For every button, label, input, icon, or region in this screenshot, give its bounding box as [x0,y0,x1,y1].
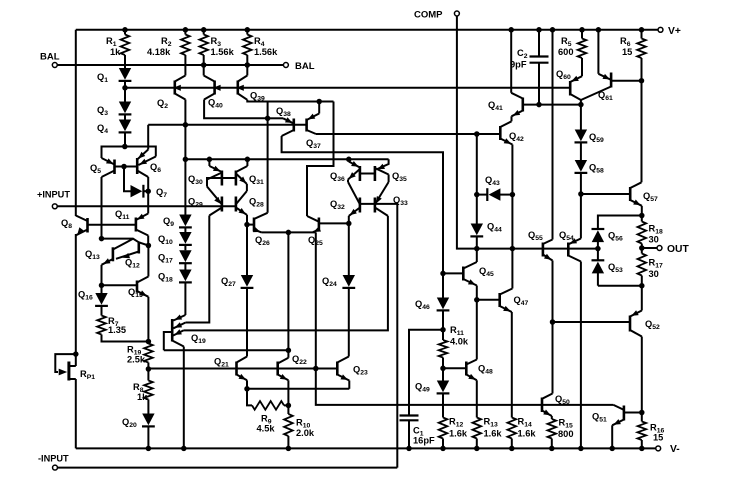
wire Q56 top link [598,216,642,230]
resistor R19 [127,344,153,370]
svg-text:Q59: Q59 [589,132,604,144]
svg-text:Q12: Q12 [125,258,140,270]
transistor Q16 (diode) [78,285,108,306]
svg-text:Q58: Q58 [589,163,604,175]
node Q51 rail [609,446,615,452]
wire Q13 emitter down [101,265,103,286]
wire Q5-Q6 base link [115,166,138,168]
wire output drive bus [316,369,614,405]
node R14 rail [509,446,515,452]
svg-text:Q7: Q7 [156,187,167,199]
wire Q37 collector east [316,133,500,135]
svg-text:Q18: Q18 [158,272,173,284]
wire Q39 collector to Q37 node [247,100,333,102]
transistor Q26 [247,213,270,247]
svg-text:15: 15 [653,433,663,443]
terminal V+ [658,26,681,37]
node Q19 col on rail [181,446,187,452]
wire Q38node col down to Q26 collector [267,118,269,213]
svg-text:Q30: Q30 [188,174,203,186]
node Q25 base node [346,221,352,227]
svg-text:R13: R13 [484,417,498,429]
resistor R3 [199,30,234,65]
wire R11top to C1 [409,330,443,415]
wire Q38 collector down+east (comp loop) [282,136,443,273]
resistor R18 [638,216,663,249]
node Q2 col at mirror rail [183,157,189,163]
svg-text:Q3: Q3 [97,105,108,117]
node rail-Q36 [346,157,352,163]
transistor Q24 (diode) [322,223,355,356]
transistor Q28 [236,191,264,215]
node Q52 base tap [550,319,556,325]
transistor Q37 [306,102,321,151]
svg-text:Q33: Q33 [393,195,408,207]
svg-text:Q44: Q44 [487,222,502,234]
node Q43 east [510,192,516,198]
wire Q9 chain top [184,159,186,214]
wire rail corner to Q35 [376,159,388,169]
svg-text:R12: R12 [449,417,463,429]
terminal V- [656,444,681,455]
resistor R1 [106,30,129,68]
resistor R4 [243,30,278,65]
transistor Q48 [466,300,493,381]
svg-text:V+: V+ [668,26,681,37]
transistor Q29 [188,187,222,216]
transistor Q5 [90,158,115,177]
svg-text:9pF: 9pF [510,60,527,70]
svg-text:Q19: Q19 [191,333,206,345]
node B [146,243,152,249]
wire BAL left [58,64,248,66]
wire Q36-Q35 base [360,173,375,175]
node C1 on rail [406,446,412,452]
node rail-Q55coll [550,27,556,33]
svg-text:R17: R17 [649,258,663,270]
svg-text:Q55: Q55 [528,230,543,242]
svg-text:1.56k: 1.56k [211,47,235,57]
transistor Q19 [164,313,206,350]
svg-text:Q47: Q47 [514,295,529,307]
svg-text:Q26: Q26 [255,235,270,247]
transistor Q41 [488,30,523,117]
svg-text:BAL: BAL [295,61,315,72]
node Q57e-R18 [639,213,645,219]
svg-text:30: 30 [649,235,659,245]
wire bottom V- rail [76,447,656,449]
svg-text:4.18k: 4.18k [147,47,171,57]
transistor Q57 [630,81,658,206]
transistor Q7 (diode) [131,185,168,199]
transistor Q11 [115,191,148,235]
node base-bus west junction [183,122,189,128]
svg-text:1k: 1k [137,392,148,402]
resistor R17 [638,248,663,286]
svg-text:Q22: Q22 [292,354,307,366]
wire Q33 emitter down to Q19 [184,216,388,331]
transistor Q33 [375,182,408,216]
node Q43 west [474,192,480,198]
svg-text:4.0k: 4.0k [450,337,469,347]
transistor Q9 (diode) [163,215,192,229]
wire Q25/Q26 emitters down [287,232,289,350]
resistor R8 [133,369,153,414]
svg-text:Q35: Q35 [392,171,407,183]
svg-text:Q61: Q61 [598,90,613,102]
svg-text:Q60: Q60 [556,69,571,81]
node rail-R4 [245,27,251,33]
transistor Q51 [592,405,642,425]
node Q26 base node [244,222,250,228]
svg-text:1.6k: 1.6k [449,429,468,439]
wire Q54 collector down to rail [580,262,582,449]
wire Q52 base [553,321,631,323]
wire quad2 left rail [347,180,349,183]
svg-text:Q41: Q41 [488,100,503,112]
transistor Q13 [85,239,133,265]
svg-text:1.6k: 1.6k [518,429,537,439]
transistor Q1 (diode) [97,68,131,88]
svg-text:15: 15 [622,47,632,57]
svg-text:V-: V- [670,444,680,455]
node Q1-base bus [122,85,128,91]
svg-text:Q27: Q27 [221,276,236,288]
resistor R10 [284,405,315,448]
node Q60e-Q41base [578,102,584,108]
transistor Q50 [542,394,570,417]
svg-text:2.5k: 2.5k [127,355,146,365]
node R19 top [146,339,152,345]
terminal BAL left [40,52,60,68]
wire Q50 emitter to R15 [551,416,553,419]
node R9-R10 [286,403,292,409]
svg-text:Q48: Q48 [478,364,493,376]
wire quad2 right rail [388,175,390,183]
svg-text:Q23: Q23 [353,365,368,377]
wire OUT stub [642,247,657,249]
svg-text:R15: R15 [559,418,573,430]
wire Q4-node west arm [102,147,125,159]
wire Q29 emitter down to Q19 [186,216,210,323]
transistor Q47 [500,249,529,312]
resistor R6 [620,30,646,81]
svg-text:COMP: COMP [414,10,443,21]
wire Q19 collector to rail [183,347,185,449]
wire quad right rail [246,184,248,191]
node rail-R2 [183,27,189,33]
transistor Q25 [307,216,349,247]
terminal BAL right [283,61,314,72]
transistor Q35 [375,164,407,183]
transistor Q52 [630,310,660,336]
resistor R9 [247,389,288,434]
svg-text:4.5k: 4.5k [257,424,276,434]
wire Q44 column top [476,134,478,224]
node BAL-R3 [201,62,207,68]
resistor R11 [439,325,469,368]
transistor Q23 [337,357,368,381]
transistor Q20 (diode) [122,414,155,449]
svg-text:Q40: Q40 [208,98,223,110]
svg-text:Q42: Q42 [509,131,524,143]
svg-text:Q46: Q46 [415,299,430,311]
node R13 rail [474,446,480,452]
svg-text:Q11: Q11 [115,209,130,221]
svg-text:Q32: Q32 [330,199,345,211]
transistor Q58 (diode) [575,142,605,194]
wire Q22 emitter down [287,380,289,405]
svg-text:Q31: Q31 [249,174,264,186]
wire Q25 emitter to Q23 base and output bus [315,232,317,368]
transistor Q4 (diode) [97,114,131,147]
node R19-R8 (Q21 base node) [146,366,152,372]
svg-text:1.6k: 1.6k [484,429,503,439]
transistor Q32 [330,182,360,216]
svg-text:Q15: Q15 [128,287,143,299]
node Q58-Q57base [578,191,584,197]
node comp-Q43Q47 [510,246,516,252]
node R11 bottom / Q48 base [440,366,446,372]
wire Q40 collector to Q38 node [204,100,268,119]
wire Q5 collector down [101,177,103,239]
svg-text:Q20: Q20 [122,417,137,429]
svg-text:Q49: Q49 [415,382,430,394]
transistor Q39 [236,65,265,103]
svg-text:Q56: Q56 [608,231,623,243]
wire Q47 emitter down to R14 [511,312,513,418]
svg-text:Q13: Q13 [85,249,100,261]
wire Q48 base link [443,367,466,369]
svg-text:Q4: Q4 [97,123,108,135]
svg-text:BAL: BAL [40,52,60,63]
transistor Q3 (diode) [97,88,131,117]
wire +INPUT to Q29/Q28 bases [58,205,236,207]
wire Q8 emitter down [75,234,77,354]
wire V+ top rail [76,29,659,31]
transistor Q15 [128,277,148,300]
transistor Q40 [204,65,223,110]
svg-text:Q6: Q6 [150,162,161,174]
wire Q38/Q37 base bus [148,124,306,126]
svg-text:+INPUT: +INPUT [37,190,70,200]
node Q13-Q16 [99,283,105,289]
transistor Q12 [116,242,148,270]
node rail-R1 [122,27,128,33]
node Q54 rail [578,446,584,452]
node R12 rail [440,446,446,452]
svg-text:Q17: Q17 [158,253,173,265]
trim resistor RP1 [55,354,95,448]
wire Q47 base link [477,299,500,301]
node Q45 base [440,271,446,277]
wire B down to Q15 collector [147,246,149,277]
wire Q28 emitter down [246,215,248,225]
wire Q23 emitter down [348,381,350,389]
resistor R2 [147,30,190,76]
wire mirror emitter rail [185,158,388,160]
transistor Q8 [61,216,88,236]
wire Q41 base [523,104,581,106]
wire Q45 emitter down [476,286,478,300]
wire Q4-node east arm [125,147,156,157]
resistor R13 [473,417,503,449]
wire base bus y=88 (Q1..Q39 bases to Q60 base) [125,87,569,89]
wire Q52 collector down [641,337,643,415]
wire Q48 emitter down to R13 [476,380,478,417]
node R15 rail [549,446,555,452]
node rail-Q31 [245,157,251,163]
resistor R12 [439,417,468,449]
terminal OUT [657,244,689,255]
wire Q57 base [581,193,630,195]
transistor Q38 [268,106,294,136]
node rail-Q61 [596,27,602,33]
node rail-Q30 [207,157,213,163]
svg-text:16pF: 16pF [413,436,435,446]
node rail-R5 [579,27,585,33]
transistor Q49 (diode) [415,368,449,417]
wire Q60 emitter down [580,100,582,105]
node Q38 emitter junction [265,102,271,122]
node C2-Q41base [536,102,542,108]
wire Q59 chain down to Q54 [580,194,582,239]
node Q51 base [639,410,645,416]
resistor R15 [548,418,574,449]
svg-text:Q43: Q43 [485,175,500,187]
svg-text:Q1: Q1 [97,72,108,84]
svg-text:1k: 1k [110,47,121,57]
terminal COMP [414,10,459,21]
svg-text:Q37: Q37 [306,138,321,150]
node comp-Q44 [474,246,480,252]
svg-text:Q45: Q45 [479,266,494,278]
resistor R5 [558,30,586,76]
node Q5-Q6 base [121,164,127,170]
svg-text:Q28: Q28 [249,197,264,209]
svg-text:600: 600 [558,47,574,57]
node Q4 bottom [122,144,128,150]
node R16 rail [639,446,645,452]
wire node A to Q12 [102,239,139,243]
wire Q53 bottom link [598,285,642,287]
wire Q2 collector down [184,100,186,160]
svg-text:30: 30 [649,269,659,279]
wire COMP down [457,16,477,249]
node C2 rail [536,27,542,33]
resistor R14 [508,417,537,449]
terminal +INPUT [37,190,70,209]
wire Q45 base link [443,272,463,274]
svg-text:Q54: Q54 [559,230,574,242]
node emitters-Q22coll [286,230,292,236]
transistor Q44 (diode) [470,222,502,249]
node RP1 top [73,351,79,357]
transistor Q36 [330,159,360,183]
node OUT [639,245,645,251]
node Q23 base node [313,366,319,372]
svg-text:Q2: Q2 [157,98,168,110]
transistor Q55 [528,30,553,261]
wire -INPUT [58,467,398,469]
svg-text:R14: R14 [518,417,532,429]
transistor Q56 (diode) [592,229,624,249]
wire BAL right stub [247,64,283,66]
svg-text:Q51: Q51 [592,412,607,424]
transistor Q60 [556,69,582,100]
node R17-Q52 [639,283,645,289]
wire Q42emitter col down to Q47 collector [511,195,513,249]
resistor R7 [97,306,148,342]
node Q20 on rail [146,446,152,452]
svg-text:800: 800 [558,429,574,439]
svg-text:Q16: Q16 [78,290,93,302]
wire Q51 emitter down [611,425,613,448]
wire Q21/Q22 base bus [148,368,337,370]
transistor Q30 [188,159,222,186]
transistor Q59 (diode) [575,105,605,145]
wire Q57 emitter down [641,206,643,216]
node Q7 cathode [145,188,151,194]
wire node to Q15 base [102,284,138,286]
node Q37 emitter top [316,99,322,105]
svg-text:RP1: RP1 [80,369,95,381]
node Q47 base [474,297,480,303]
svg-text:2.0k: 2.0k [296,428,315,438]
svg-text:C2: C2 [517,48,528,60]
wire base node down to Q7 [124,167,131,192]
transistor Q31 [236,159,264,186]
node rail-R6 [639,27,645,33]
capacitor C2 [510,30,549,105]
svg-text:Q9: Q9 [163,216,174,228]
wire Q42 emitter down [511,145,513,195]
transistor Q46 (diode) [415,273,449,329]
transistor Q27 (diode) [221,225,253,357]
transistor Q22 [278,350,307,380]
svg-text:Q24: Q24 [322,276,337,288]
transistor Q10 (diode) [158,227,192,246]
transistor Q61 [581,30,642,102]
transistor Q18 (diode) [158,263,192,313]
wire Q37emitter-corner down [307,102,334,217]
wire left vertical (Q8 collector to rail) [75,30,77,216]
svg-text:R11: R11 [450,325,464,337]
wire Q55 emitter down [552,261,554,394]
capacitor C1 [400,416,436,449]
node R11 top [440,327,446,333]
node rail-R3 [201,27,207,33]
node rail-Q41coll [508,27,514,33]
svg-text:OUT: OUT [667,244,689,255]
transistor Q45 [463,249,494,286]
svg-text:Q36: Q36 [330,171,345,183]
node Q56-compbus [595,246,601,252]
svg-text:Q5: Q5 [90,163,101,175]
wire Q6 emitter1 from base-bus branch [147,125,149,150]
wire Q21 emitter node [246,380,248,389]
node Q22 collector node [286,348,292,354]
svg-text:Q8: Q8 [61,218,72,230]
wire Q30-Q31 base [207,178,236,187]
terminal -INPUT [38,454,69,471]
transistor Q2 [157,76,185,111]
wire R17 node down to Q52 emitter [641,286,643,311]
wire Q6 collector down [147,177,149,191]
node R6-Q61base [639,78,645,84]
transistor Q42 [500,116,524,144]
node BAL-R4 [245,62,251,68]
